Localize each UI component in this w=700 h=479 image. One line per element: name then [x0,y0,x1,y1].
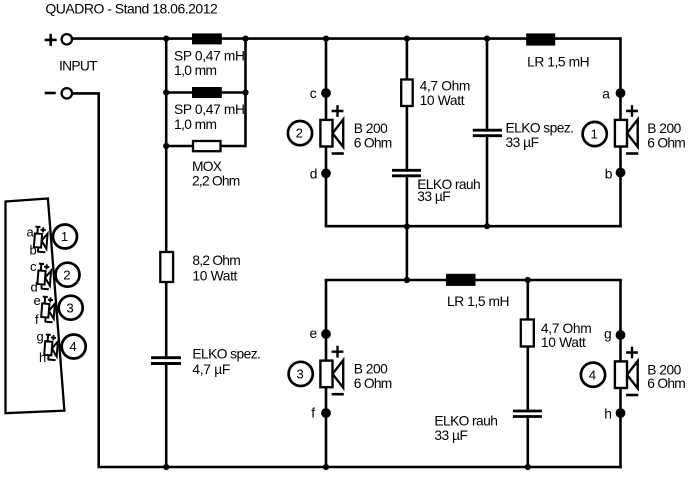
inductor L2 SP 0,47 mH [192,87,222,98]
svg-text:4,7 Ohm: 4,7 Ohm [420,79,471,94]
svg-text:f: f [35,312,39,327]
speaker U3 minus polarity mark [332,393,344,396]
svg-text:ELKO spez.: ELKO spez. [192,346,261,361]
cabinet reference circle (1) [53,225,77,249]
svg-text:e: e [34,293,41,308]
wire right vertical of bottom section (speaker U4) [619,280,622,468]
svg-text:f: f [311,405,315,420]
speaker U4 reference circle (4) [581,363,605,387]
svg-text:33 µF: 33 µF [434,428,468,443]
svg-text:B 200: B 200 [354,362,388,377]
svg-text:6 Ohm: 6 Ohm [647,376,686,391]
wire parallel group right vertical [244,39,247,148]
cabinet driver 3 symbol [41,297,55,323]
speaker U1 minus polarity mark [626,152,638,155]
speaker U1 reference circle (1) [583,122,607,146]
svg-text:10 Watt: 10 Watt [192,268,237,283]
junction top rail / R3 branch [404,36,410,42]
cabinet reference circle (4) [62,335,86,359]
svg-text:6 Ohm: 6 Ohm [354,135,393,150]
input plus sign [45,34,57,46]
junction bottom rail / U3 branch [323,464,329,470]
speaker U4 plus polarity mark [626,347,638,359]
speaker U3 reference circle (3) [289,362,313,386]
cabinet driver 2 symbol [37,264,51,290]
svg-text:10 Watt: 10 Watt [420,93,465,108]
node c terminal dot [321,88,331,98]
inductor L3 LR 1,5 mH (top) [526,33,555,45]
svg-text:2: 2 [63,267,70,282]
svg-text:2,2 Ohm: 2,2 Ohm [192,174,240,189]
svg-text:1,0 mm: 1,0 mm [174,117,217,132]
capacitor C1 ELKO spez. 4,7 uF [151,358,181,364]
speaker cabinet outline [6,199,65,414]
svg-text:1,0 mm: 1,0 mm [174,63,217,78]
speaker U3 plus polarity mark [332,346,344,358]
node a terminal dot [616,88,626,98]
speaker U2 plus polarity mark [332,105,344,117]
wire second inductor row horizontal [166,91,245,94]
wire bottom return rail [97,466,621,469]
svg-text:MOX: MOX [192,159,222,174]
capacitor C3 ELKO spez. 33 uF [473,130,502,136]
junction top rail / parallel group right [242,36,248,42]
speaker U2 minus polarity mark [332,152,344,155]
svg-text:a: a [27,225,35,240]
junction L2 row right [242,89,248,95]
svg-text:B 200: B 200 [647,362,681,377]
svg-text:10 Watt: 10 Watt [541,335,586,350]
speaker U2 B 200 symbol [320,120,343,147]
svg-text:LR 1,5 mH: LR 1,5 mH [527,54,590,69]
junction bottom rail / C5 branch [525,464,531,470]
capacitor C2 ELKO rauh 33 uF (top) [392,170,421,176]
svg-text:QUADRO - Stand 18.06.2012: QUADRO - Stand 18.06.2012 [45,0,218,16]
speaker U1 plus polarity mark [626,105,638,117]
svg-text:2: 2 [296,126,303,141]
node f terminal dot [321,408,331,418]
svg-text:B 200: B 200 [647,121,681,136]
svg-text:c: c [310,86,317,101]
svg-text:d: d [310,166,318,181]
svg-text:1: 1 [591,127,598,142]
svg-text:SP 0,47 mH: SP 0,47 mH [174,102,245,117]
svg-text:LR 1,5 mH: LR 1,5 mH [447,294,510,309]
wire C3 branch vertical [486,39,489,227]
node b terminal dot [616,168,626,178]
svg-text:4,7 µF: 4,7 µF [192,362,230,377]
wire top rail of bottom section [325,279,622,282]
svg-text:1: 1 [61,229,68,244]
junction top rail / parallel group left [163,36,169,42]
svg-text:33 µF: 33 µF [506,135,540,150]
resistor R2 8,2 Ohm 10 Watt [160,252,173,282]
cabinet reference circle (3) [59,296,83,320]
speaker U1 B 200 symbol [615,120,638,147]
svg-text:c: c [30,259,37,274]
cabinet driver 1 symbol [34,227,48,253]
svg-text:e: e [310,326,318,341]
svg-text:SP 0,47 mH: SP 0,47 mH [174,48,245,63]
svg-text:a: a [602,86,610,101]
wire right vertical of top section (to speaker U1) [619,37,622,227]
svg-text:g: g [37,329,44,344]
wire bottom rail of top section [325,225,622,228]
node d terminal dot [321,168,331,178]
svg-text:6 Ohm: 6 Ohm [354,376,393,391]
speaker U4 minus polarity mark [626,394,638,397]
svg-text:6 Ohm: 6 Ohm [647,135,686,150]
svg-text:h: h [39,350,46,365]
svg-text:INPUT: INPUT [59,58,98,73]
input minus terminal circle [62,88,72,98]
svg-text:g: g [604,326,612,341]
wire top rail (+ input to top-right corner) [72,37,621,40]
svg-text:ELKO rauh: ELKO rauh [434,413,498,428]
svg-text:ELKO spez.: ELKO spez. [506,120,575,135]
svg-text:4: 4 [589,367,596,382]
wire R4/C5 branch vertical [526,280,529,467]
resistor R4 4,7 Ohm 10 Watt (bottom) [521,320,534,347]
wire minus input to bottom rail [73,93,99,467]
inductor L4 LR 1,5 mH (bottom) [446,274,476,286]
junction top rail / U2 branch [323,36,329,42]
speaker U3 B 200 symbol [320,360,343,387]
svg-text:4: 4 [69,339,76,354]
svg-text:h: h [604,407,612,422]
junction MOX row left [163,143,169,149]
junction bottom rail / C1 branch [163,464,169,470]
resistor R1 MOX 2,2 Ohm [193,141,221,151]
junction bottom-section top rail / link from top [404,277,410,283]
wire R3/C2 branch vertical (links top and bottom sections) [406,39,409,280]
speaker U2 reference circle (2) [288,121,312,145]
node g terminal dot [616,330,626,340]
junction top rail / C3 branch [484,36,490,42]
wire speaker U2 branch vertical [325,39,328,227]
junction L2 row left [163,89,169,95]
svg-text:4,7 Ohm: 4,7 Ohm [541,321,592,336]
junction top-section bottom rail / C3 branch [484,223,490,229]
input minus sign [45,92,56,95]
svg-text:33 µF: 33 µF [417,189,451,204]
speaker U4 B 200 symbol [615,361,638,388]
svg-text:B 200: B 200 [354,121,388,136]
node e terminal dot [321,329,331,339]
cabinet reference circle (2) [56,263,80,287]
cabinet driver 4 symbol [44,334,58,360]
svg-text:3: 3 [296,367,303,382]
svg-text:3: 3 [66,300,73,315]
junction top-section bottom rail / R3-C2 branch [404,223,410,229]
resistor R3 4,7 Ohm 10 Watt (top) [401,80,413,107]
wire MOX row horizontal [166,145,245,148]
svg-text:b: b [30,243,37,258]
svg-text:8,2 Ohm: 8,2 Ohm [192,253,240,268]
capacitor C5 ELKO rauh 33 uF (bottom) [513,411,542,417]
inductor L1 SP 0,47 mH [192,33,222,44]
wire left column vertical (R2/C1 branch) [165,146,168,467]
wire parallel group left vertical [165,39,168,146]
svg-text:b: b [605,166,613,181]
input plus terminal circle [62,34,72,44]
wire speaker U3 branch vertical [325,280,328,467]
junction bottom-section top rail / R4 branch [525,277,531,283]
node h terminal dot [616,408,626,418]
